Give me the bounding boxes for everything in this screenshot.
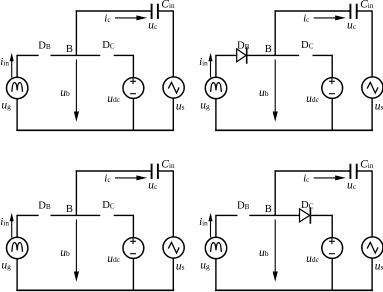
wire bottom rail (bottom-left) bbox=[16, 289, 174, 291]
svg-text:iin: iin bbox=[199, 216, 208, 228]
wire top rail left of capacitor (top-right) bbox=[275, 10, 350, 12]
current arrow i_c (bottom-left) bbox=[115, 175, 147, 180]
wire bottom rail (top-left) bbox=[16, 129, 174, 131]
wire B-level middle segment (top-left) bbox=[51, 54, 101, 56]
AC source u_g (bottom-left) bbox=[7, 237, 28, 258]
svg-text:ug: ug bbox=[1, 99, 11, 111]
wire B-level left segment, D_B off gap (bottom-left) bbox=[17, 214, 39, 216]
diode D_C (bottom-right) bbox=[300, 207, 311, 224]
DC source u_dc (bottom-left) bbox=[123, 238, 144, 259]
wire B-level middle segment (bottom-right) bbox=[249, 214, 299, 216]
wire right branch top (top-left) bbox=[172, 10, 174, 77]
svg-text:us: us bbox=[176, 260, 185, 272]
svg-text:DC: DC bbox=[102, 40, 115, 51]
wire u_dc branch bottom (bottom-left) bbox=[132, 258, 134, 291]
AC source u_s (bottom-left) bbox=[163, 237, 184, 258]
wire left branch top (top-right) bbox=[215, 55, 217, 78]
svg-text:iin: iin bbox=[0, 216, 9, 228]
svg-text:DB: DB bbox=[237, 40, 250, 51]
svg-text:iin: iin bbox=[0, 56, 9, 68]
svg-text:Cin: Cin bbox=[161, 0, 175, 11]
wire right branch bottom (top-right) bbox=[371, 98, 373, 131]
wire node B to top rail (top-right) bbox=[274, 10, 276, 55]
wire node B to top rail (bottom-left) bbox=[75, 170, 77, 215]
DC source u_dc (bottom-right) bbox=[322, 238, 343, 259]
svg-text:us: us bbox=[375, 100, 383, 112]
wire node B to top rail (top-left) bbox=[75, 10, 77, 55]
svg-text:DC: DC bbox=[301, 40, 314, 51]
wire left branch bottom (top-right) bbox=[215, 99, 217, 131]
current arrow i_c (top-left) bbox=[115, 15, 147, 20]
wire B-level right segment (bottom-right) bbox=[310, 214, 332, 216]
svg-text:ub: ub bbox=[60, 247, 70, 259]
svg-text:DC: DC bbox=[301, 200, 314, 211]
wire top rail left of capacitor (top-left) bbox=[76, 10, 151, 12]
AC source u_s (top-left) bbox=[163, 77, 184, 98]
wire left branch bottom (top-left) bbox=[16, 99, 18, 131]
capacitor C_in (bottom-right) bbox=[350, 164, 356, 179]
svg-text:ub: ub bbox=[259, 87, 269, 99]
svg-text:udc: udc bbox=[306, 93, 320, 105]
wire bottom rail (top-right) bbox=[215, 129, 373, 131]
svg-text:ic: ic bbox=[104, 12, 110, 24]
svg-text:uc: uc bbox=[148, 20, 158, 32]
wire right branch bottom (bottom-left) bbox=[172, 258, 174, 291]
wire left branch top (top-left) bbox=[16, 55, 18, 78]
svg-text:udc: udc bbox=[306, 253, 320, 265]
wire B-level right segment, D_C off gap (bottom-left) bbox=[114, 214, 134, 216]
voltage arrow u_b (top-right) bbox=[273, 60, 278, 122]
wire top rail right of capacitor (top-right) bbox=[358, 10, 373, 12]
svg-text:B: B bbox=[66, 204, 73, 215]
svg-text:ic: ic bbox=[303, 12, 309, 24]
wire left branch top (bottom-right) bbox=[215, 215, 217, 238]
current arrow i_in (bottom-left) bbox=[10, 213, 14, 238]
wire left branch bottom (bottom-right) bbox=[215, 259, 217, 291]
svg-text:uc: uc bbox=[347, 180, 357, 192]
capacitor C_in (top-right) bbox=[350, 4, 356, 19]
wire B-level right segment, D_C off gap (top-left) bbox=[114, 54, 134, 56]
current arrow i_c (bottom-right) bbox=[314, 175, 346, 180]
current arrow i_in (top-left) bbox=[10, 53, 14, 78]
diode D_B (top-right) bbox=[237, 47, 247, 64]
wire u_dc branch top (bottom-right) bbox=[331, 215, 333, 238]
capacitor C_in (top-left) bbox=[152, 4, 158, 19]
svg-text:DB: DB bbox=[38, 40, 51, 51]
wire u_dc branch top (top-right) bbox=[331, 55, 333, 78]
wire node B to top rail (bottom-right) bbox=[274, 170, 276, 215]
svg-text:B: B bbox=[265, 44, 272, 55]
wire bottom rail (bottom-right) bbox=[215, 289, 373, 291]
svg-text:us: us bbox=[375, 260, 383, 272]
wire u_dc branch bottom (top-right) bbox=[331, 98, 333, 131]
wire u_dc branch bottom (top-left) bbox=[132, 98, 134, 131]
svg-text:ic: ic bbox=[104, 172, 110, 184]
svg-text:us: us bbox=[176, 100, 185, 112]
wire top rail right of capacitor (top-left) bbox=[159, 10, 174, 12]
wire B-level left segment (top-right) bbox=[216, 54, 237, 56]
wire B-level middle segment (bottom-left) bbox=[51, 214, 101, 216]
svg-text:ug: ug bbox=[1, 259, 11, 271]
svg-text:DB: DB bbox=[38, 200, 51, 211]
wire right branch bottom (top-left) bbox=[172, 98, 174, 131]
current arrow i_c (top-right) bbox=[314, 15, 346, 20]
wire B-level left segment, D_B off gap (top-left) bbox=[17, 54, 39, 56]
svg-text:ub: ub bbox=[60, 87, 70, 99]
wire left branch top (bottom-left) bbox=[16, 215, 18, 238]
wire u_dc branch top (top-left) bbox=[132, 55, 134, 78]
voltage arrow u_b (top-left) bbox=[74, 60, 79, 122]
wire B-level right segment, D_C off gap (top-right) bbox=[313, 54, 333, 56]
DC source u_dc (top-right) bbox=[322, 78, 343, 99]
svg-text:B: B bbox=[265, 204, 272, 215]
AC source u_g (top-right) bbox=[205, 77, 226, 98]
voltage arrow u_b (bottom-right) bbox=[273, 220, 278, 282]
wire u_dc branch bottom (bottom-right) bbox=[331, 258, 333, 291]
svg-text:udc: udc bbox=[107, 253, 121, 265]
wire left branch bottom (bottom-left) bbox=[16, 259, 18, 291]
svg-text:ub: ub bbox=[259, 247, 269, 259]
svg-text:iin: iin bbox=[199, 56, 208, 68]
svg-text:ic: ic bbox=[303, 172, 309, 184]
wire u_dc branch top (bottom-left) bbox=[132, 215, 134, 238]
svg-text:Cin: Cin bbox=[360, 159, 374, 171]
svg-text:DB: DB bbox=[237, 200, 250, 211]
AC source u_g (top-left) bbox=[7, 77, 28, 98]
wire top rail left of capacitor (bottom-right) bbox=[275, 170, 350, 172]
svg-text:Cin: Cin bbox=[360, 0, 374, 11]
AC source u_g (bottom-right) bbox=[205, 237, 226, 258]
wire B-level middle segment (top-right) bbox=[247, 54, 299, 56]
wire top rail right of capacitor (bottom-right) bbox=[358, 170, 373, 172]
svg-text:uc: uc bbox=[347, 20, 357, 32]
current arrow i_in (top-right) bbox=[208, 53, 212, 78]
AC source u_s (top-right) bbox=[362, 77, 383, 98]
wire B-level left segment, D_B off gap (bottom-right) bbox=[216, 214, 238, 216]
wire right branch bottom (bottom-right) bbox=[371, 258, 373, 291]
current arrow i_in (bottom-right) bbox=[208, 213, 212, 238]
wire right branch top (bottom-right) bbox=[371, 170, 373, 237]
AC source u_s (bottom-right) bbox=[362, 237, 383, 258]
svg-text:uc: uc bbox=[148, 180, 158, 192]
svg-text:ug: ug bbox=[200, 259, 210, 271]
wire right branch top (top-right) bbox=[371, 10, 373, 77]
svg-text:Cin: Cin bbox=[161, 159, 175, 171]
voltage arrow u_b (bottom-left) bbox=[74, 220, 79, 282]
svg-text:DC: DC bbox=[102, 200, 115, 211]
svg-text:udc: udc bbox=[107, 93, 121, 105]
wire top rail right of capacitor (bottom-left) bbox=[159, 170, 174, 172]
capacitor C_in (bottom-left) bbox=[152, 164, 158, 179]
DC source u_dc (top-left) bbox=[123, 78, 144, 99]
svg-text:ug: ug bbox=[200, 99, 210, 111]
wire top rail left of capacitor (bottom-left) bbox=[76, 170, 151, 172]
wire right branch top (bottom-left) bbox=[172, 170, 174, 237]
svg-text:B: B bbox=[66, 44, 73, 55]
